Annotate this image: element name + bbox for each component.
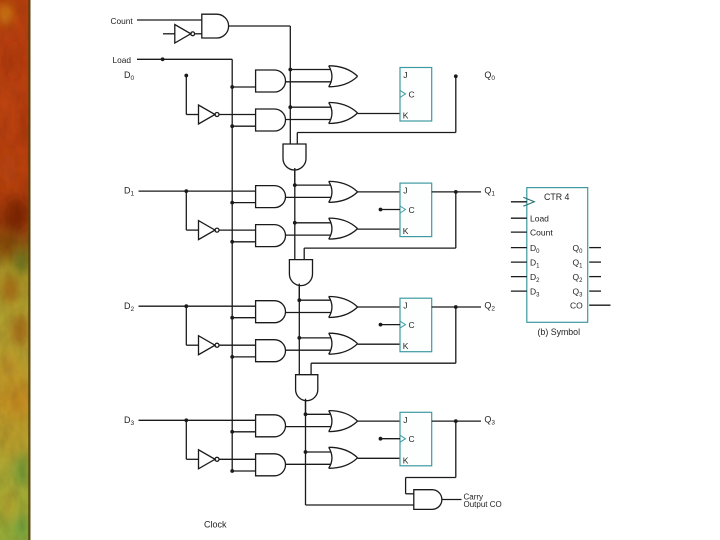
svg-text:Count: Count: [530, 228, 553, 238]
svg-text:D0: D0: [530, 243, 540, 255]
svg-text:Load: Load: [113, 55, 132, 65]
svg-text:Q0: Q0: [484, 70, 495, 82]
svg-text:Clock: Clock: [204, 520, 227, 530]
svg-text:Output CO: Output CO: [464, 500, 502, 509]
svg-text:CO: CO: [570, 301, 583, 311]
svg-text:C: C: [409, 205, 415, 215]
svg-text:D1: D1: [530, 258, 540, 270]
svg-text:CTR 4: CTR 4: [544, 192, 570, 202]
svg-text:J: J: [403, 301, 407, 311]
svg-text:D1: D1: [124, 186, 135, 198]
svg-text:K: K: [403, 111, 409, 121]
svg-text:C: C: [409, 89, 415, 99]
svg-text:C: C: [409, 434, 415, 444]
svg-text:K: K: [403, 226, 409, 236]
svg-text:C: C: [409, 320, 415, 330]
svg-text:K: K: [403, 455, 409, 465]
svg-text:Count: Count: [111, 16, 134, 26]
svg-text:K: K: [403, 341, 409, 351]
svg-text:(b) Symbol: (b) Symbol: [538, 327, 581, 337]
svg-text:Q1: Q1: [484, 185, 495, 197]
svg-text:Q1: Q1: [573, 258, 584, 270]
svg-text:D3: D3: [124, 415, 135, 427]
svg-text:Load: Load: [530, 214, 549, 224]
svg-text:Q3: Q3: [573, 287, 584, 299]
svg-text:D2: D2: [530, 272, 540, 284]
svg-text:J: J: [403, 70, 407, 80]
svg-text:Q2: Q2: [573, 272, 584, 284]
svg-text:D2: D2: [124, 301, 135, 313]
svg-text:J: J: [403, 186, 407, 196]
svg-text:D3: D3: [530, 287, 540, 299]
svg-text:Q2: Q2: [484, 301, 495, 313]
svg-text:Q3: Q3: [484, 415, 495, 427]
svg-text:J: J: [403, 415, 407, 425]
svg-text:D0: D0: [124, 70, 135, 82]
svg-text:Q0: Q0: [573, 243, 584, 255]
